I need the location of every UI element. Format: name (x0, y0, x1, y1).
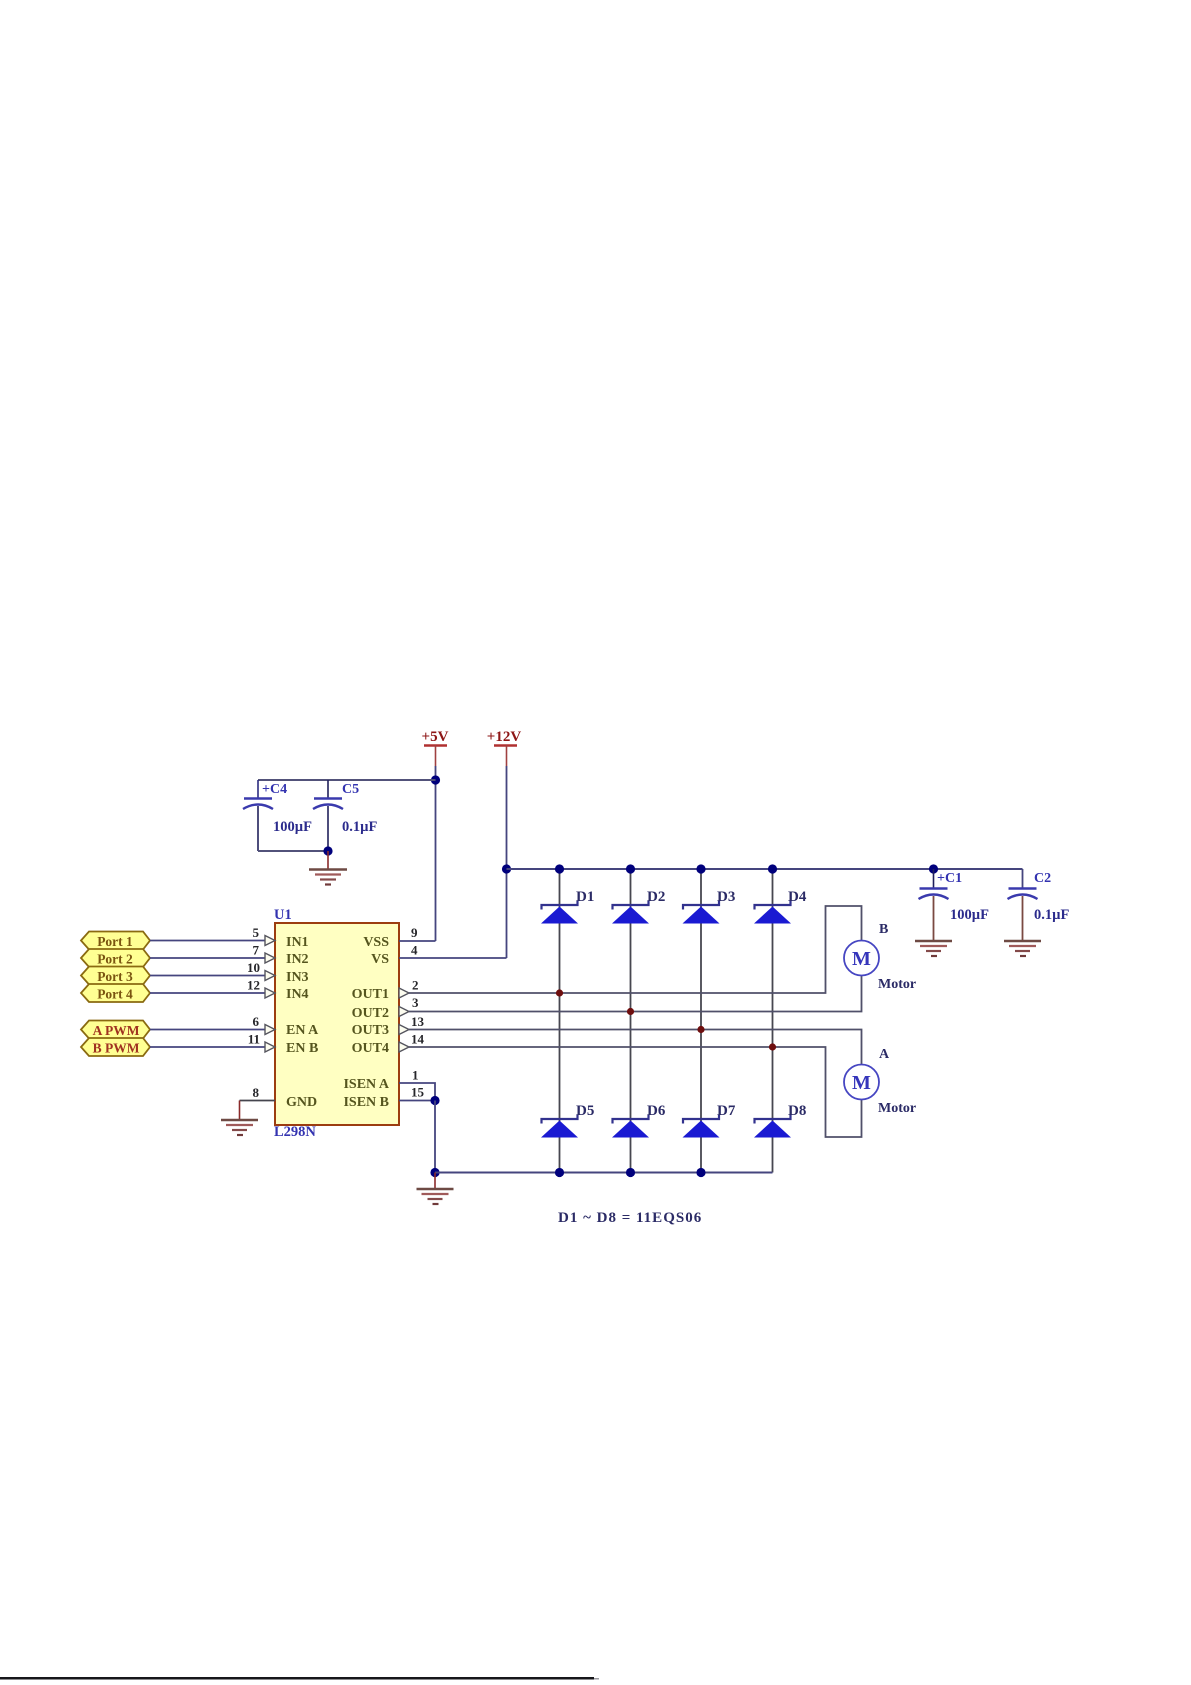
motor B (844, 922, 916, 992)
wire +12V vertical to VS (506, 766, 508, 958)
node rail dots bottom (555, 1168, 706, 1177)
wire C4 C5 top rail (258, 779, 436, 781)
port flag Port 1 (81, 932, 150, 950)
node junction +12V / diode top rail (502, 864, 511, 873)
port flag B PWM (81, 1038, 150, 1056)
svg-text:L298N: L298N (274, 1124, 316, 1140)
svg-text:4: 4 (411, 943, 418, 958)
svg-text:2: 2 (412, 978, 419, 993)
wire diode column 4 (772, 869, 774, 1138)
svg-text:Port 4: Port 4 (97, 987, 133, 1002)
svg-text:A PWM: A PWM (93, 1023, 140, 1038)
svg-text:C5: C5 (342, 782, 359, 797)
svg-text:3: 3 (412, 995, 419, 1010)
node OUT3 column3 (697, 1026, 704, 1033)
wire APWM to ENA (150, 1029, 266, 1031)
wire Port4 to IN4 (150, 992, 266, 994)
svg-text:14: 14 (411, 1032, 425, 1047)
svg-text:IN2: IN2 (286, 952, 309, 967)
node bottom rail left (430, 1168, 439, 1177)
svg-text:D3: D3 (717, 889, 735, 905)
wire OUT1 (409, 906, 862, 993)
node junction +5V / C4C5 rail (431, 775, 440, 784)
svg-text:100µF: 100µF (273, 819, 312, 835)
diode D6 (612, 1103, 666, 1138)
svg-text:7: 7 (253, 943, 260, 958)
svg-text:D4: D4 (788, 889, 807, 905)
motor A (844, 1047, 916, 1116)
wire diode bottom rail (435, 1172, 773, 1174)
wire ISEN A pin1 (399, 1083, 435, 1101)
node OUT4 column4 (769, 1043, 776, 1050)
svg-text:Motor: Motor (878, 977, 916, 992)
IC U1 L298N body (274, 907, 399, 1140)
ground below C4 C5 (309, 851, 347, 885)
svg-text:D1: D1 (576, 889, 594, 905)
bottom border line (0, 1677, 594, 1680)
svg-text:IN4: IN4 (286, 987, 309, 1002)
svg-text:M: M (852, 1072, 871, 1094)
svg-text:M: M (852, 948, 871, 970)
wire ISEN B pin15 (399, 1100, 435, 1102)
wire Port2 to IN2 (150, 957, 266, 959)
svg-text:D2: D2 (647, 889, 665, 905)
svg-text:+C1: +C1 (937, 871, 962, 886)
svg-text:15: 15 (411, 1085, 425, 1100)
port flag A PWM (81, 1021, 150, 1039)
svg-text:EN B: EN B (286, 1041, 318, 1056)
wire diode column 4 lower (772, 1138, 774, 1173)
svg-text:OUT3: OUT3 (352, 1023, 389, 1038)
svg-text:10: 10 (247, 960, 260, 975)
svg-text:ISEN B: ISEN B (343, 1095, 389, 1110)
capacitor C2 (1008, 871, 1070, 941)
pin numbers right (411, 925, 425, 1100)
IC U1 pin names (286, 935, 390, 1110)
svg-text:Port 2: Port 2 (97, 952, 133, 967)
svg-text:6: 6 (253, 1014, 260, 1029)
svg-text:IN1: IN1 (286, 935, 309, 950)
svg-text:ISEN A: ISEN A (343, 1077, 389, 1092)
capacitor C4 (243, 780, 312, 851)
svg-text:B PWM: B PWM (93, 1041, 140, 1056)
svg-text:VSS: VSS (363, 935, 389, 950)
svg-text:5: 5 (253, 925, 260, 940)
svg-text:D8: D8 (788, 1103, 806, 1119)
wire Port3 to IN3 (150, 975, 266, 977)
svg-text:A: A (879, 1047, 890, 1062)
svg-text:0.1µF: 0.1µF (1034, 907, 1069, 923)
wire VSS pin9 (399, 940, 436, 942)
diode D5 (541, 1103, 594, 1138)
svg-text:GND: GND (286, 1095, 317, 1110)
wire diode column 2 (630, 869, 632, 1173)
diode D8 (754, 1103, 806, 1138)
svg-text:+12V: +12V (487, 729, 522, 745)
svg-text:13: 13 (411, 1014, 425, 1029)
diode D1 (541, 889, 594, 924)
wire Port1 to IN1 (150, 940, 266, 942)
diode D7 (683, 1103, 736, 1138)
wire C2 drop from rail (1022, 869, 1024, 888)
wire VS pin4 (399, 957, 507, 959)
svg-text:+C4: +C4 (262, 782, 287, 797)
wire ISEN down to bottom rail (434, 1101, 436, 1173)
svg-text:OUT2: OUT2 (352, 1006, 389, 1021)
wire GND pin8 (240, 1100, 276, 1102)
svg-text:0.1µF: 0.1µF (342, 819, 377, 835)
svg-text:U1: U1 (274, 907, 292, 923)
svg-text:1: 1 (412, 1068, 419, 1083)
svg-text:Port 3: Port 3 (97, 969, 133, 984)
node junction C1 rail (929, 864, 938, 873)
svg-text:OUT1: OUT1 (352, 987, 389, 1002)
wire diode column 1 (559, 869, 561, 1173)
svg-text:C2: C2 (1034, 871, 1051, 886)
node ISEN junction (430, 1096, 439, 1105)
ground at GND pin (221, 1101, 258, 1136)
svg-text:8: 8 (253, 1085, 260, 1100)
wire OUT3 (409, 1030, 862, 1065)
pin numbers left (247, 925, 260, 1100)
port flag Port 3 (81, 967, 150, 985)
svg-text:12: 12 (247, 978, 260, 993)
svg-text:D5: D5 (576, 1103, 594, 1119)
wire C4 C5 bottom (258, 850, 328, 852)
svg-text:OUT4: OUT4 (352, 1041, 389, 1056)
node junction C5 bottom (323, 846, 332, 855)
power symbol +12V (487, 729, 522, 766)
svg-text:100µF: 100µF (950, 907, 989, 923)
capacitor C1 (919, 869, 990, 941)
svg-text:IN3: IN3 (286, 970, 309, 985)
wire diode column 3 (700, 869, 702, 1173)
svg-text:EN A: EN A (286, 1023, 319, 1038)
wire OUT4 (409, 1047, 862, 1137)
wire BPWM to ENB (150, 1046, 266, 1048)
wire +5V vertical to VSS (435, 766, 437, 941)
svg-text:D1 ~ D8 = 11EQS06: D1 ~ D8 = 11EQS06 (558, 1210, 702, 1226)
node OUT2 column2 (627, 1008, 634, 1015)
svg-text:D6: D6 (647, 1103, 666, 1119)
ground below bottom rail (417, 1173, 454, 1205)
svg-text:Port 1: Port 1 (97, 934, 133, 949)
svg-text:9: 9 (411, 925, 418, 940)
svg-text:Motor: Motor (878, 1101, 916, 1116)
svg-text:D7: D7 (717, 1103, 736, 1119)
power symbol +5V (422, 729, 449, 766)
ground below C1 (915, 941, 952, 956)
port flag Port 4 (81, 984, 150, 1002)
pin arrows left inputs (265, 936, 275, 1053)
bottom border line light tail (594, 1678, 599, 1680)
wire diode top rail (507, 868, 1023, 870)
diode D3 (683, 889, 736, 924)
diode D2 (612, 889, 665, 924)
svg-text:VS: VS (371, 952, 389, 967)
pin arrows right outputs (399, 988, 409, 1052)
wire OUT2 (409, 976, 862, 1012)
svg-text:11: 11 (248, 1032, 260, 1047)
capacitor C5 (313, 780, 377, 851)
ground below C2 (1004, 941, 1041, 956)
node OUT1 column1 (556, 989, 563, 996)
port flag Port 2 (81, 949, 150, 967)
diode D4 (754, 889, 807, 924)
svg-text:B: B (879, 922, 888, 937)
node rail dots top (555, 864, 777, 873)
svg-text:+5V: +5V (422, 729, 449, 745)
